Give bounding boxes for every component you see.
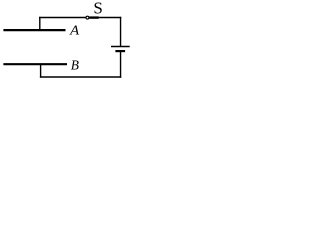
switch S blade <box>89 16 99 18</box>
switch S pivot circle <box>86 16 89 19</box>
svg-text:S: S <box>93 0 102 18</box>
wire plate B lead down <box>40 64 42 77</box>
background <box>0 0 132 93</box>
battery short plate (negative) <box>115 50 125 52</box>
battery long plate (positive) <box>111 46 130 48</box>
wire right vertical down to battery <box>120 17 122 46</box>
wire top horizontal to switch <box>39 17 86 19</box>
wire switch to right corner <box>98 17 121 19</box>
wire plate A lead up <box>39 17 41 30</box>
capacitor plate B <box>3 63 67 65</box>
wire bottom horizontal <box>40 76 121 78</box>
capacitor plate A <box>3 29 65 31</box>
svg-text:B: B <box>71 58 80 73</box>
wire battery down to bottom corner <box>120 52 122 78</box>
svg-text:A: A <box>69 22 80 37</box>
